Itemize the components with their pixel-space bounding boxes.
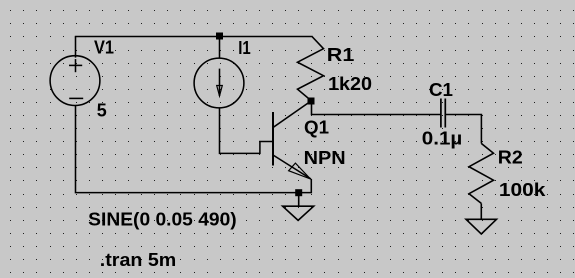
svg-text:SINE(0 0.05 490): SINE(0 0.05 490)	[88, 208, 237, 229]
resistor R2	[469, 144, 494, 220]
resistor R1	[298, 36, 324, 101]
wire top rail from V1 to R1	[75, 36, 312, 38]
wire V1 bottom to emitter ground junction	[76, 105, 299, 192]
svg-text:.tran 5m: .tran 5m	[100, 249, 177, 270]
wire C1 to R2	[445, 115, 481, 144]
capacitor C1	[441, 99, 445, 128]
junction at emitter / ground	[295, 189, 302, 196]
ground symbol at emitter	[283, 196, 314, 220]
svg-text:100k: 100k	[499, 179, 546, 200]
svg-text:V1: V1	[94, 36, 114, 57]
svg-text:5: 5	[97, 99, 107, 120]
wire collector junction to C1	[312, 101, 441, 115]
svg-text:R1: R1	[327, 44, 355, 65]
svg-text:I1: I1	[238, 37, 251, 58]
wire I1 bottom to Q1 base	[220, 108, 273, 154]
transistor Q1	[273, 101, 311, 193]
svg-text:NPN: NPN	[304, 147, 346, 168]
junction at R1 bottom / Q1 collector	[308, 98, 315, 105]
svg-text:0.1µ: 0.1µ	[422, 128, 463, 149]
svg-text:1k20: 1k20	[328, 73, 372, 94]
svg-text:Q1: Q1	[304, 116, 329, 137]
svg-text:R2: R2	[498, 146, 523, 167]
current source I1	[194, 37, 244, 108]
ground symbol at R2	[466, 219, 497, 234]
junction at I1 top	[216, 33, 223, 40]
svg-text:C1: C1	[429, 79, 453, 100]
voltage source V1	[50, 37, 100, 106]
